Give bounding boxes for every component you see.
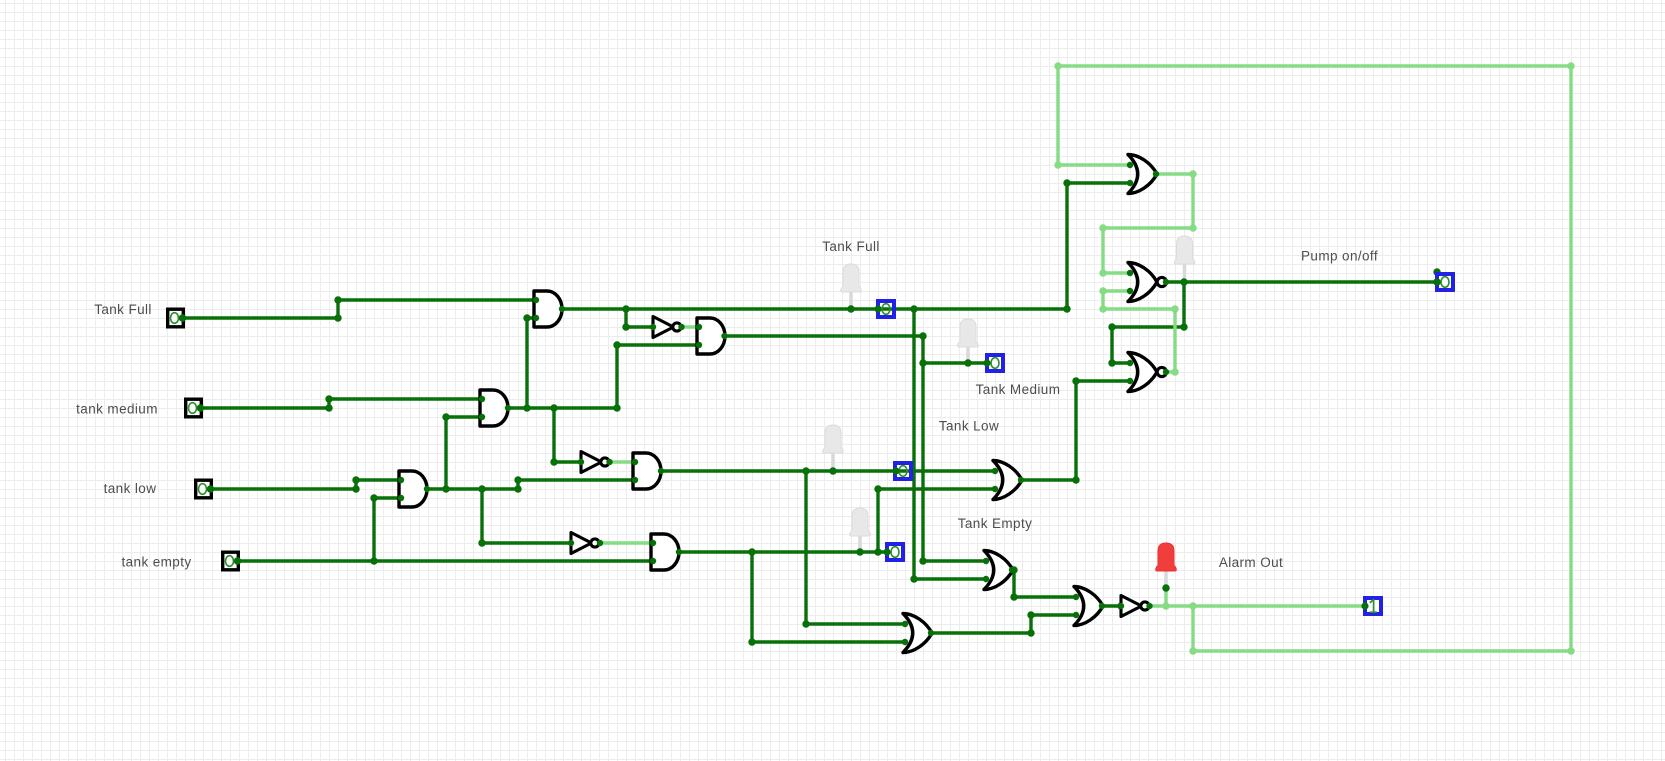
svg-text:Alarm Out: Alarm Out [1219,555,1283,570]
wire AND6 out to tank-empty box [680,550,886,553]
wire AND3 in2 from tank-empty [374,498,399,561]
wire NOT4 out to alarm box [1149,604,1364,607]
output box fill Tank Low [893,461,913,481]
wire AND3 out to AND5 in2 [428,480,633,489]
input box tank medium [186,399,202,417]
wire tank-empty input to AND6 in2 [240,559,651,562]
OR gate O1 (set line OR) [1128,155,1157,194]
wire tank-low input to AND3 in1 [213,480,399,489]
output box fill Pump on/off [1435,272,1456,292]
wire AND2 out bus [509,406,617,409]
svg-text:Tank Full: Tank Full [94,302,152,317]
output box fill Alarm Out [1363,596,1383,616]
output box Tank Full [878,301,894,317]
output box Tank Empty [887,544,903,560]
NOT gate N1 [653,317,674,338]
corner dots (light wires) [1054,62,1061,69]
AND gate U2 (tank medium AND) [480,390,508,426]
input box fill tank empty [221,551,240,572]
output box Tank Low [895,463,911,479]
AND gate U3 (tank low AND) [399,471,427,507]
output box fill Tank Empty [885,542,905,562]
LED pump indicator [1174,236,1195,264]
svg-text:Tank Low: Tank Low [939,419,999,434]
wire tank-medium branch to output box [923,361,986,364]
svg-text:tank empty: tank empty [121,555,191,570]
svg-text:Tank Empty: Tank Empty [958,516,1033,531]
OR gate O4 (bottom OR) [903,614,932,653]
wire tank-empty-out branch to OR4 in2 [752,552,903,642]
svg-text:tank medium: tank medium [76,402,158,417]
input box Tank Full [168,309,184,327]
LED stem tank medium [966,347,970,364]
wire alarm LED stub [1164,589,1167,606]
svg-text:Tank Full: Tank Full [822,239,880,254]
output box fill Tank Full [876,299,897,319]
output box fill Tank Medium [985,353,1005,373]
svg-text:Pump on/off: Pump on/off [1301,249,1378,264]
OR gate O3 (tank empty OR) [984,551,1013,590]
input box tank low [196,480,212,498]
output box Alarm Out [1365,598,1381,614]
wire AND2-out branch to AND4 in2 [617,345,696,408]
wire tank-full branch to OR3 in2 [914,309,984,579]
wire NOT3 out [599,541,651,544]
wire feedback loop top and right side [1058,66,1571,651]
wire branch to NOT1 input [626,309,653,327]
wire NOT2 out [609,460,633,463]
LED tank full indicator [841,264,862,292]
input box tank empty [223,552,239,570]
NOR gate X2 (latch bottom) [1128,353,1157,392]
output box Tank Medium [987,355,1003,371]
wire tank-empty-out branch to OR2 in2 [878,489,993,552]
AND gate U4 (NOT1 AND) [697,318,725,354]
input box fill tank medium [184,398,203,419]
wire branch up to AND2 in2 [446,417,480,489]
NOT gate N3 [571,533,592,554]
wire tank-medium input to AND2 in1 [203,399,480,408]
AND gate U6 (tank empty indicator AND) [651,534,679,570]
wire NOT1 out [681,325,696,328]
LED stem tank full [849,292,853,310]
NOT gate N4 (alarm) [1121,596,1142,617]
wire AND5 out tank-low bus [662,469,993,472]
LED stem tank low [831,453,835,472]
LED tank empty indicator [850,508,871,536]
svg-text:tank low: tank low [104,481,157,496]
AND gate U5 (tank low indicator AND) [633,453,661,489]
svg-text:Tank Medium: Tank Medium [976,382,1061,397]
wire AND2-out branch up to AND1 in2 [527,318,534,408]
wire OR4 out to OR5 in2 [932,615,1074,633]
wire branch down to NOT3 [482,489,571,543]
wire OR5 out to NOT4 [1103,604,1121,607]
LED stem alarm [1164,571,1168,589]
wire alarm branch down to loop [1191,606,1194,651]
wire OR1 out to NOR1 in1 [1103,174,1193,273]
wire AND4 out to OR3 in1 [725,336,984,561]
AND gate U1 (tank full AND) [534,291,562,327]
wire AND2-out branch down to NOT2 [554,408,581,462]
wire latch feedback NOR1-out to NOR2 in1 [1112,282,1184,363]
OR gate O2 (tank low OR) [993,461,1022,500]
wire NOR1 out to pump output box [1166,280,1437,283]
wire tank-full input to AND1 in1 [185,300,534,318]
LED stem pump [1183,264,1187,283]
input box fill tank low [194,479,213,500]
output box Pump on/off [1437,274,1453,290]
wire OR2 out to NOR2 in2 [1022,381,1128,480]
wire AND1 out to OR1 in2 [563,183,1128,309]
NOT gate N2 [581,452,602,473]
wire loop to OR1 in1 [1058,66,1128,165]
LED tank low indicator [823,425,844,453]
OR gate O5 (alarm OR) [1074,587,1103,626]
NOR gate X1 (latch top) [1128,263,1157,302]
LED tank medium indicator [958,319,979,347]
gate pin node dots [533,297,539,303]
wire OR3 out to OR5 in1 [1013,570,1074,597]
wire NOR2 out to NOR1 in2 [1103,291,1175,372]
junction and corner dots (dark wires) [334,314,341,321]
LED stem tank empty [858,536,862,553]
wire tank-low branch to OR4 in1 [806,471,903,624]
wire pump box stub [1435,272,1438,282]
input box fill Tank Full [166,308,185,329]
LED alarm (red, lit) [1156,543,1177,571]
